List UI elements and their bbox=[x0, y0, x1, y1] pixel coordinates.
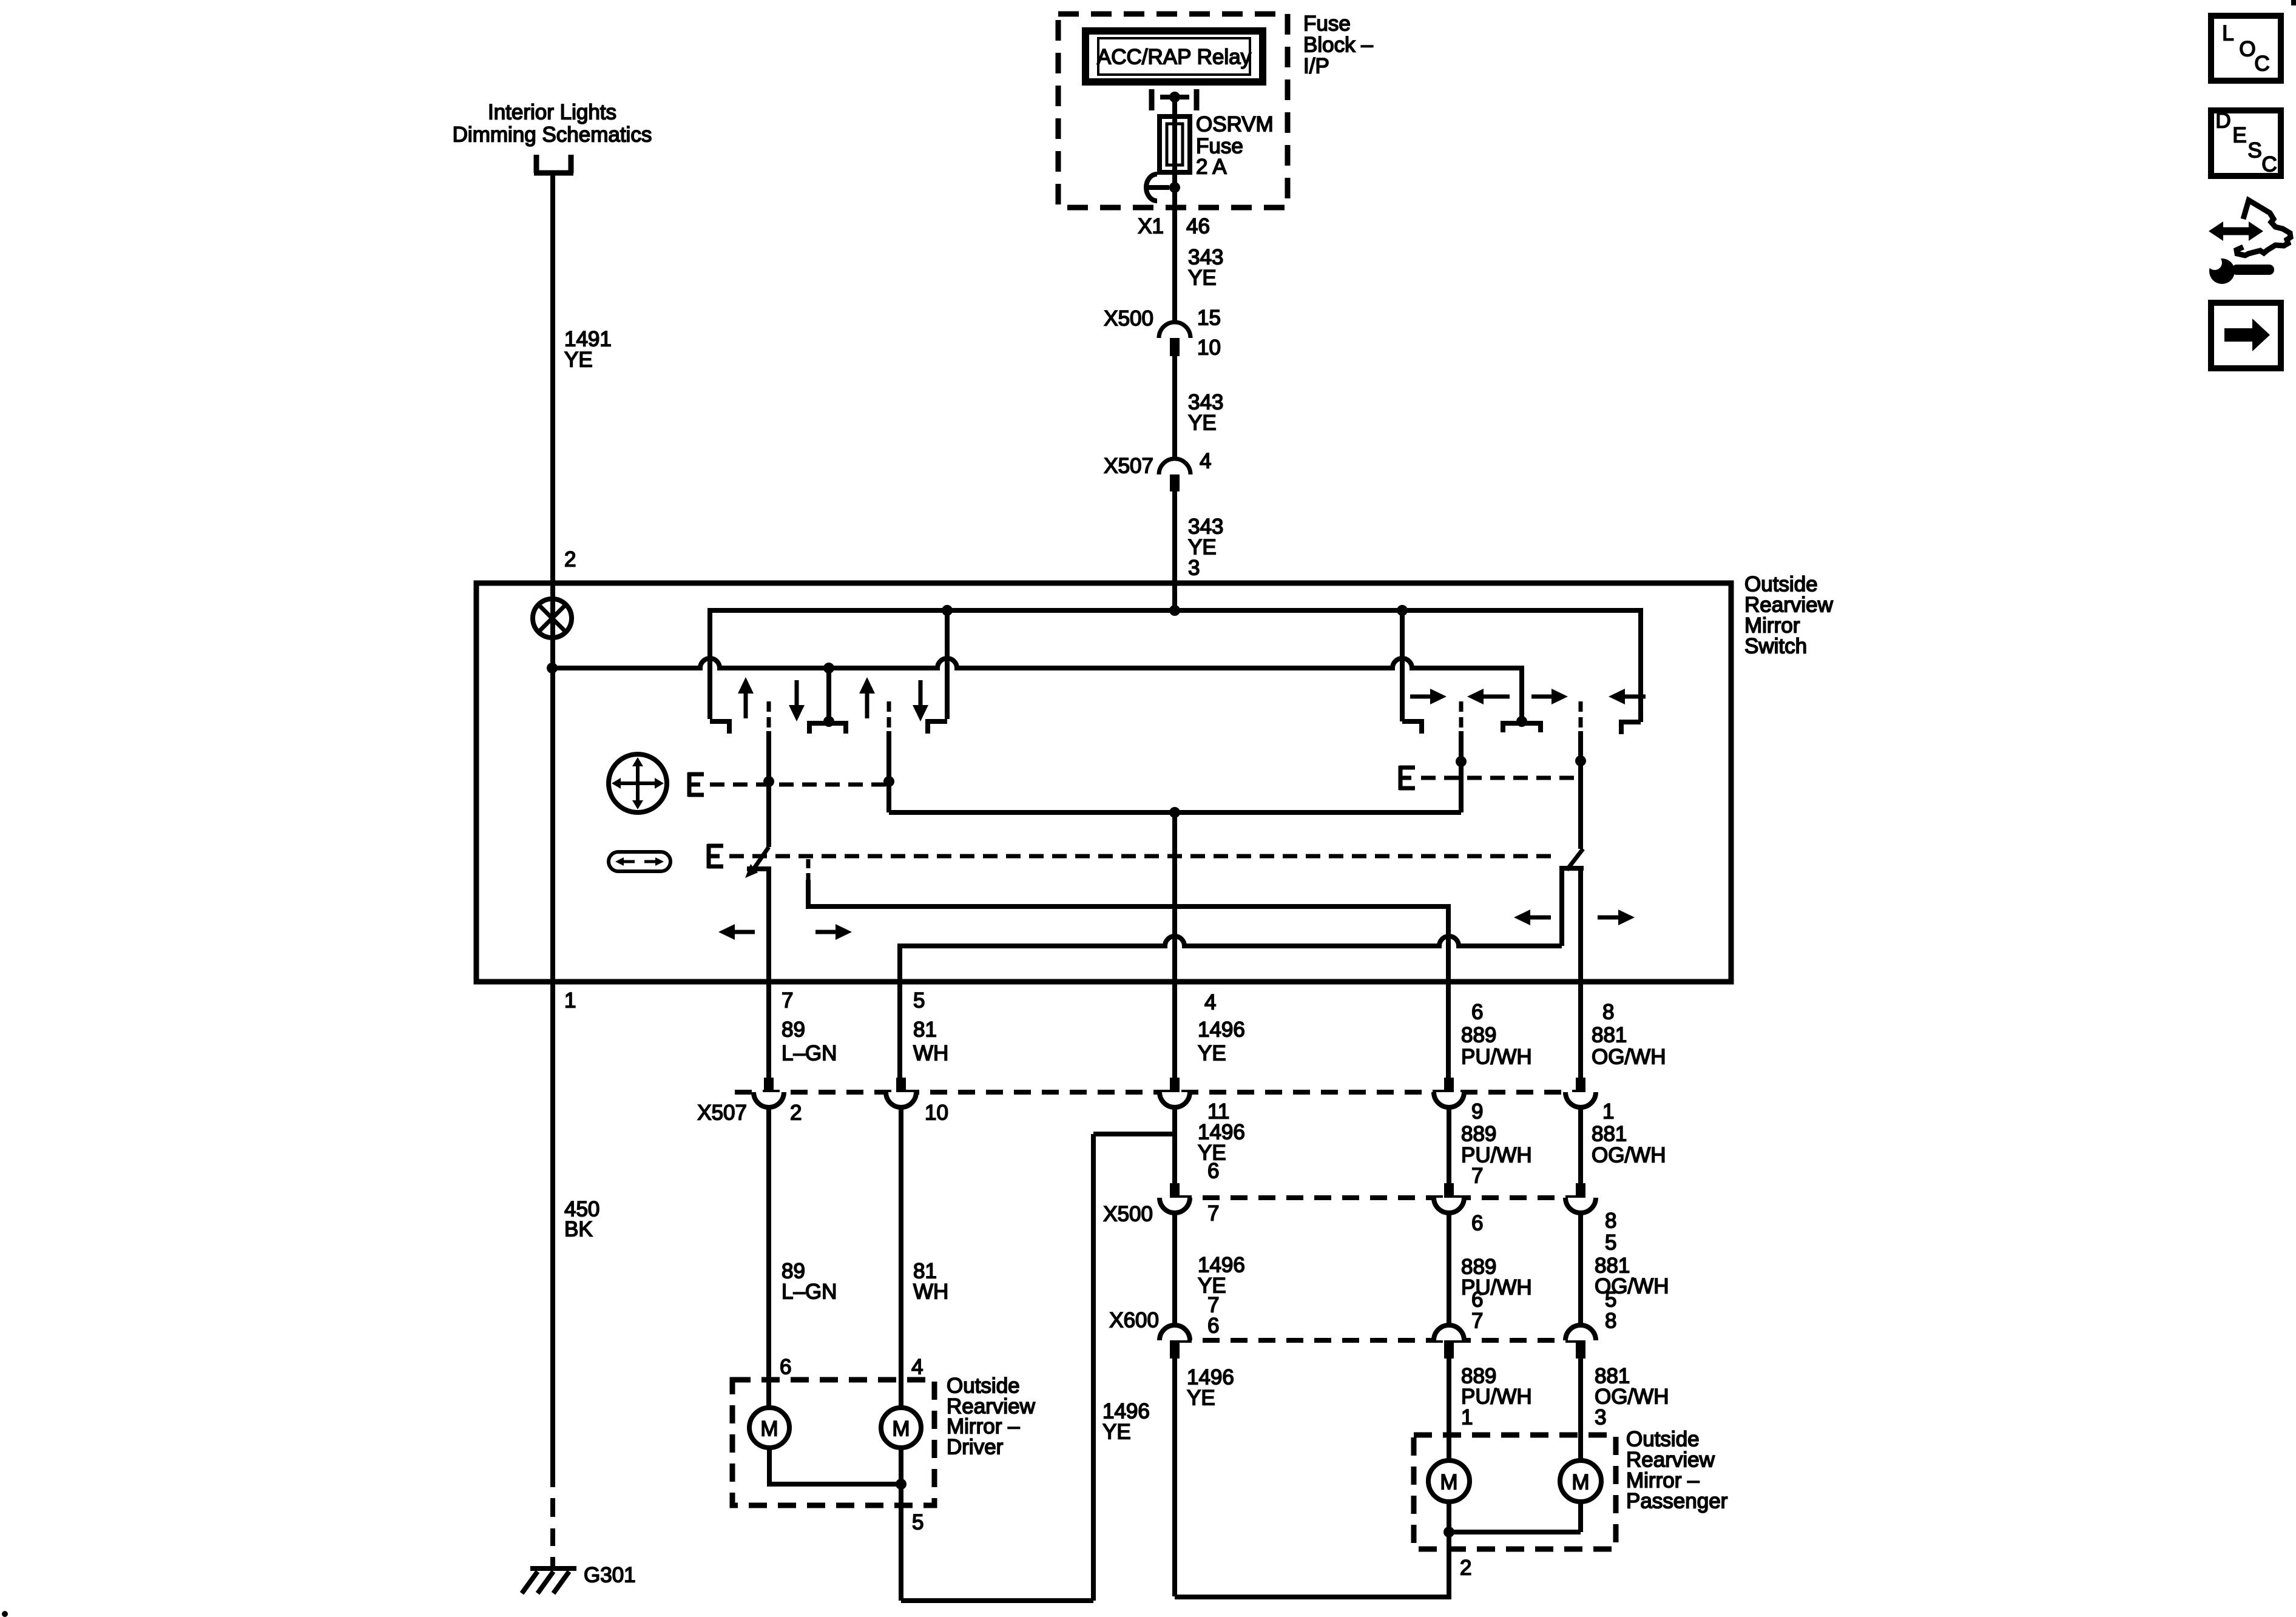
svg-text:5: 5 bbox=[1605, 1231, 1616, 1255]
svg-text:89: 89 bbox=[782, 1018, 805, 1042]
svg-text:ACC/RAP Relay: ACC/RAP Relay bbox=[1097, 46, 1252, 69]
svg-text:Driver: Driver bbox=[947, 1436, 1004, 1459]
svg-text:6: 6 bbox=[1471, 1288, 1483, 1312]
svg-text:6: 6 bbox=[780, 1355, 791, 1379]
svg-text:2: 2 bbox=[1460, 1556, 1471, 1580]
svg-text:6: 6 bbox=[1471, 1001, 1483, 1024]
svg-text:Interior Lights: Interior Lights bbox=[488, 101, 616, 124]
svg-text:1496: 1496 bbox=[1198, 1018, 1245, 1042]
svg-text:BK: BK bbox=[564, 1218, 593, 1241]
svg-text:YE: YE bbox=[1102, 1420, 1131, 1444]
svg-text:8: 8 bbox=[1605, 1309, 1616, 1333]
svg-text:Block –: Block – bbox=[1303, 33, 1373, 57]
svg-text:15: 15 bbox=[1197, 306, 1221, 330]
svg-text:6: 6 bbox=[1207, 1314, 1219, 1338]
svg-text:8: 8 bbox=[1605, 1209, 1616, 1233]
svg-text:1: 1 bbox=[1461, 1406, 1473, 1430]
svg-text:7: 7 bbox=[782, 989, 793, 1013]
svg-text:YE: YE bbox=[1188, 411, 1217, 435]
svg-text:8: 8 bbox=[1602, 1001, 1614, 1024]
svg-text:YE: YE bbox=[1188, 266, 1217, 290]
svg-text:4: 4 bbox=[1200, 450, 1211, 473]
svg-text:OG/WH: OG/WH bbox=[1592, 1144, 1666, 1167]
svg-text:2: 2 bbox=[790, 1101, 802, 1125]
svg-text:S: S bbox=[2247, 139, 2261, 163]
svg-text:X1: X1 bbox=[1138, 215, 1164, 238]
svg-text:1: 1 bbox=[564, 989, 576, 1013]
svg-text:YE: YE bbox=[1198, 1042, 1226, 1065]
svg-text:Fuse: Fuse bbox=[1303, 12, 1351, 36]
svg-text:L–GN: L–GN bbox=[782, 1280, 837, 1304]
svg-text:889: 889 bbox=[1461, 1024, 1496, 1047]
svg-text:M: M bbox=[1440, 1471, 1457, 1494]
svg-text:10: 10 bbox=[925, 1101, 948, 1125]
svg-text:Passenger: Passenger bbox=[1626, 1490, 1728, 1513]
svg-text:7: 7 bbox=[1471, 1164, 1483, 1188]
svg-text:OSRVM: OSRVM bbox=[1196, 113, 1274, 137]
svg-text:WH: WH bbox=[913, 1042, 948, 1065]
svg-text:10: 10 bbox=[1197, 336, 1221, 360]
svg-text:46: 46 bbox=[1186, 215, 1210, 238]
svg-text:M: M bbox=[1572, 1471, 1589, 1494]
svg-text:2 A: 2 A bbox=[1196, 155, 1227, 179]
svg-text:7: 7 bbox=[1207, 1202, 1219, 1226]
svg-text:C: C bbox=[2261, 153, 2277, 177]
svg-text:L–GN: L–GN bbox=[782, 1042, 837, 1065]
svg-text:L: L bbox=[2222, 22, 2234, 46]
svg-text:YE: YE bbox=[1187, 1386, 1215, 1410]
svg-text:6: 6 bbox=[1471, 1212, 1483, 1235]
svg-text:X500: X500 bbox=[1104, 307, 1153, 331]
svg-text:OG/WH: OG/WH bbox=[1592, 1045, 1666, 1069]
svg-text:M: M bbox=[892, 1417, 910, 1441]
svg-text:PU/WH: PU/WH bbox=[1461, 1045, 1532, 1069]
svg-text:2: 2 bbox=[564, 548, 576, 572]
svg-text:M: M bbox=[760, 1417, 778, 1441]
svg-text:WH: WH bbox=[913, 1280, 948, 1304]
svg-text:6: 6 bbox=[1207, 1160, 1219, 1183]
svg-text:81: 81 bbox=[913, 1018, 937, 1042]
svg-text:5: 5 bbox=[913, 989, 925, 1013]
svg-text:E: E bbox=[2232, 124, 2246, 147]
svg-text:9: 9 bbox=[1471, 1100, 1483, 1124]
svg-text:5: 5 bbox=[912, 1511, 923, 1534]
svg-text:X507: X507 bbox=[697, 1101, 747, 1125]
svg-text:Dimming Schematics: Dimming Schematics bbox=[453, 123, 652, 147]
svg-text:3: 3 bbox=[1595, 1406, 1606, 1430]
svg-text:881: 881 bbox=[1592, 1024, 1627, 1047]
svg-text:G301: G301 bbox=[584, 1564, 636, 1587]
svg-text:X507: X507 bbox=[1104, 454, 1153, 478]
svg-text:7: 7 bbox=[1471, 1309, 1483, 1333]
svg-text:X600: X600 bbox=[1109, 1309, 1159, 1332]
svg-text:4: 4 bbox=[911, 1355, 923, 1379]
svg-text:4: 4 bbox=[1204, 991, 1216, 1014]
svg-text:YE: YE bbox=[564, 348, 593, 372]
svg-text:D: D bbox=[2215, 109, 2230, 133]
svg-text:889: 889 bbox=[1461, 1122, 1496, 1146]
svg-text:Switch: Switch bbox=[1744, 635, 1807, 658]
svg-text:X500: X500 bbox=[1103, 1203, 1153, 1226]
svg-text:I/P: I/P bbox=[1303, 55, 1329, 78]
svg-text:3: 3 bbox=[1188, 556, 1200, 580]
svg-text:C: C bbox=[2254, 52, 2269, 76]
svg-text:O: O bbox=[2239, 38, 2255, 61]
svg-text:1: 1 bbox=[1602, 1100, 1614, 1124]
svg-text:5: 5 bbox=[1605, 1288, 1616, 1312]
svg-text:881: 881 bbox=[1592, 1122, 1627, 1146]
